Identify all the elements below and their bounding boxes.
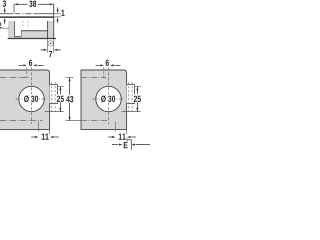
screw hole line A (26, 67, 28, 78)
left short extension line (0, 27, 9, 29)
vertical centerline B (108, 67, 110, 124)
pocket bottom (14, 36, 21, 38)
dim 7 (41, 39, 61, 57)
panel B (81, 70, 127, 130)
horizontal centerline B (93, 98, 124, 100)
cavity faint centerlines (22, 21, 24, 28)
dim 25 B (122, 87, 142, 112)
screw hole line B (103, 67, 105, 78)
dim 25 A (45, 87, 65, 112)
left cut dimension partial glyph (0, 22, 1, 28)
screw centerline A bottom (0, 120, 43, 122)
section top dash-dot line (0, 13, 54, 15)
cup hole A (19, 86, 44, 111)
dim 38 (14, 1, 54, 14)
dim 3 label (3, 0, 6, 6)
frame corner (127, 138, 131, 150)
screw centerline B bottom (81, 120, 108, 122)
cup label A (23, 94, 39, 102)
door bottom edge (8, 38, 56, 40)
screw symbol circle (48, 41, 53, 46)
horizontal centerline A (16, 98, 47, 100)
frame thick line (0, 16, 54, 18)
edge plate A (50, 82, 58, 111)
door right edge (53, 4, 55, 39)
dim 1 right (54, 7, 65, 23)
cup hole B (96, 86, 121, 111)
screw centerline A top (0, 77, 30, 79)
dim 11 B (108, 122, 136, 140)
dim 6 B (96, 60, 121, 67)
dim 3 lower arrow (4, 18, 6, 24)
vertical centerline A (31, 67, 33, 124)
dim 43 A (65, 78, 81, 121)
screw centerline B top (81, 77, 106, 79)
pocket step wall (20, 31, 22, 37)
dim 3 upper arrow (4, 8, 6, 14)
cavity bottom (21, 30, 48, 32)
dim 11 A (31, 122, 59, 140)
door slab (8, 21, 54, 39)
cup label B (100, 94, 116, 102)
cavity right wall (47, 21, 49, 38)
cavity left wall (14, 21, 16, 36)
panel A (0, 70, 50, 130)
edge plate B (127, 82, 135, 111)
dim 6 A (19, 60, 44, 67)
dim E (112, 142, 150, 148)
